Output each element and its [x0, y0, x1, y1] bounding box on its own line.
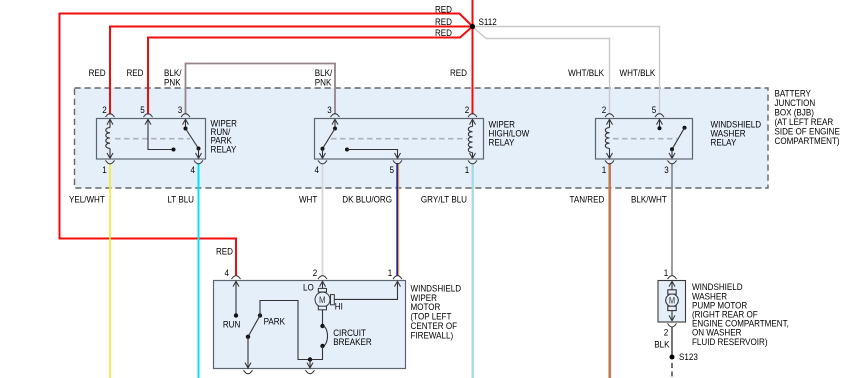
- svg-text:2: 2: [313, 268, 318, 279]
- svg-text:FIREWALL): FIREWALL): [411, 330, 454, 341]
- svg-text:RED: RED: [450, 68, 467, 79]
- svg-text:RED: RED: [216, 246, 233, 257]
- svg-text:2: 2: [465, 105, 470, 116]
- svg-text:3: 3: [664, 165, 669, 176]
- svg-text:TAN/RED: TAN/RED: [570, 194, 605, 205]
- svg-text:WHT/BLK: WHT/BLK: [568, 68, 604, 79]
- svg-text:FLUID RESERVOIR): FLUID RESERVOIR): [692, 336, 768, 347]
- svg-text:RED: RED: [435, 4, 452, 15]
- svg-text:GRY/LT BLU: GRY/LT BLU: [421, 194, 467, 205]
- svg-text:PARK: PARK: [264, 316, 285, 327]
- svg-text:RUN: RUN: [223, 319, 240, 330]
- svg-text:2: 2: [602, 105, 607, 116]
- svg-text:WHT/BLK: WHT/BLK: [619, 68, 655, 79]
- svg-text:1: 1: [465, 165, 470, 176]
- svg-text:1: 1: [102, 165, 107, 176]
- svg-text:RELAY: RELAY: [489, 137, 515, 148]
- svg-text:COMPARTMENT): COMPARTMENT): [775, 135, 840, 146]
- svg-text:5: 5: [652, 105, 657, 116]
- svg-text:1: 1: [602, 165, 607, 176]
- svg-text:S123: S123: [679, 352, 698, 363]
- svg-text:3: 3: [327, 105, 332, 116]
- svg-text:LO: LO: [303, 282, 314, 293]
- svg-text:4: 4: [191, 165, 196, 176]
- svg-text:RELAY: RELAY: [711, 137, 737, 148]
- svg-text:PNK: PNK: [164, 77, 181, 88]
- svg-text:BLK: BLK: [654, 339, 669, 350]
- svg-text:YEL/WHT: YEL/WHT: [69, 194, 105, 205]
- svg-text:2: 2: [102, 105, 107, 116]
- svg-text:LT BLU: LT BLU: [167, 194, 194, 205]
- svg-text:1: 1: [388, 268, 393, 279]
- svg-text:BLK/WHT: BLK/WHT: [631, 194, 667, 205]
- svg-text:RED: RED: [435, 16, 452, 27]
- svg-text:2: 2: [664, 327, 669, 338]
- svg-text:DK BLU/ORG: DK BLU/ORG: [342, 194, 392, 205]
- svg-text:PNK: PNK: [315, 77, 332, 88]
- svg-text:M: M: [319, 294, 325, 305]
- svg-text:HI: HI: [335, 301, 343, 312]
- svg-text:RED: RED: [126, 68, 143, 79]
- svg-text:1: 1: [664, 268, 669, 279]
- svg-text:M: M: [669, 296, 675, 306]
- svg-text:4: 4: [315, 165, 320, 176]
- svg-text:WHT: WHT: [299, 194, 318, 205]
- svg-text:S112: S112: [479, 17, 497, 28]
- svg-text:BREAKER: BREAKER: [333, 336, 372, 347]
- svg-text:3: 3: [178, 105, 183, 116]
- svg-text:RELAY: RELAY: [211, 144, 237, 155]
- svg-text:RED: RED: [435, 27, 452, 38]
- svg-text:RED: RED: [89, 68, 106, 79]
- svg-text:5: 5: [390, 165, 395, 176]
- svg-text:5: 5: [140, 105, 145, 116]
- svg-text:4: 4: [225, 268, 230, 279]
